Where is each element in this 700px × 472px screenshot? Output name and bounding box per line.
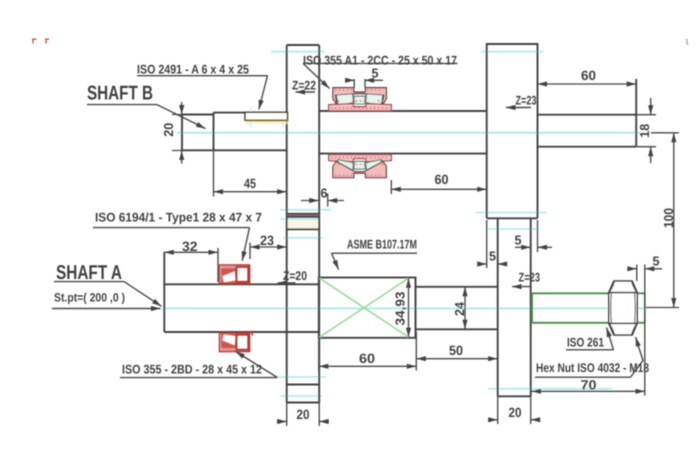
label ISO 355 A1 underline — [303, 62, 458, 64]
hex nut top chamfer arcs — [610, 281, 637, 292]
seal ISO 6194 upper top strip — [221, 266, 236, 269]
bearing 2CC lower cage spacer — [354, 161, 365, 169]
seal ISO 6194 upper inner cup — [237, 267, 249, 282]
svg-text:45: 45 — [244, 176, 256, 191]
dim 5 gear right edges lines — [515, 246, 531, 248]
dim 70 line — [532, 390, 646, 392]
dim 6 lines — [301, 200, 319, 202]
key centre mark left — [250, 108, 252, 127]
dim 60 shaft B line — [391, 188, 486, 190]
key ISO 2491 glow — [245, 120, 288, 124]
svg-text:SHAFT A: SHAFT A — [56, 262, 122, 284]
gear blank column left — [286, 45, 288, 403]
label ISO 261 underline — [566, 349, 614, 351]
thread stub past nut bottom — [637, 322, 645, 324]
svg-text:Z=22: Z=22 — [292, 79, 316, 93]
dim 5 bearing extensions — [354, 79, 365, 88]
svg-text:Z=20: Z=20 — [283, 269, 307, 283]
leader ISO 6194 to seal — [242, 228, 249, 261]
svg-text:60: 60 — [581, 68, 596, 83]
dim 5 gear left edges lines — [478, 263, 487, 265]
mesh overlap band — [288, 220, 319, 229]
svg-text:60: 60 — [435, 172, 449, 187]
seal ISO 355-2BD lower elastomer fill — [221, 334, 236, 349]
svg-text:24: 24 — [452, 301, 467, 316]
svg-text:5: 5 — [489, 249, 496, 264]
dim 23 line — [250, 246, 287, 248]
dim 50 line — [416, 358, 497, 360]
seal ISO 6194 upper lip wedge — [222, 271, 236, 283]
pitch line gear Z23 lower bottom — [488, 388, 612, 390]
pitch line gear Z23 lower top — [487, 228, 540, 230]
svg-text:ISO 355 - 2BD - 28 x 45 x 12: ISO 355 - 2BD - 28 x 45 x 12 — [122, 363, 262, 377]
seal ISO 355-2BD lower corner tab — [247, 332, 253, 336]
gear blank column right — [318, 45, 320, 403]
seal ISO 355-2BD lower body — [220, 333, 250, 352]
bearing 2CC lower inner ring — [329, 155, 392, 162]
dim 32 line — [164, 251, 218, 253]
bearing 2CC upper roller end bars — [336, 95, 384, 105]
dim 5 nut lines — [628, 268, 637, 270]
label ASME underline — [332, 252, 418, 254]
key centre mark right — [282, 108, 284, 127]
svg-text:100: 100 — [661, 208, 676, 228]
gear Z22 bottom edge lines — [287, 214, 320, 217]
svg-text:St.pt=( 200 ,0 ): St.pt=( 200 ,0 ) — [54, 291, 125, 305]
hex nut middle band — [609, 293, 637, 324]
wrench square section outline — [319, 278, 416, 338]
arrow Z=23 top — [506, 107, 531, 109]
dim 100 dim line — [673, 133, 675, 308]
pitch line gear Z23 right upper — [476, 212, 547, 214]
bearing 2CC upper outer ring — [333, 88, 386, 104]
bearing 2CC upper speckles — [331, 90, 389, 108]
arrow Z=23 bottom — [512, 286, 531, 288]
svg-text:5: 5 — [653, 254, 660, 269]
dim 24 line — [464, 287, 466, 330]
pitch line gear Z23 top — [481, 51, 544, 53]
leader ASME to wrench section — [332, 253, 339, 269]
seal ISO 355-2BD lower bottom strip — [221, 348, 236, 351]
bearing 2CC lower outer ring — [333, 161, 386, 177]
hex nut bottom section — [609, 323, 637, 335]
svg-text:Hex Nut ISO 4032 - M18: Hex Nut ISO 4032 - M18 — [536, 361, 649, 375]
leader ISO 355-2BD to bearing — [236, 351, 278, 377]
svg-text:20: 20 — [297, 407, 310, 422]
bearing 2CC upper roller left — [336, 94, 354, 106]
seal ISO 6194 upper body — [220, 265, 250, 284]
leader ISO 2491 to key — [259, 76, 268, 110]
dim 20 gear blank extensions — [287, 403, 320, 427]
svg-text:ISO 2491 - A 6 x 4 x 25: ISO 2491 - A 6 x 4 x 25 — [137, 63, 249, 77]
svg-text:23: 23 — [260, 233, 274, 248]
svg-text:32: 32 — [182, 239, 198, 254]
svg-text:ISO 355 A1 - 2CC - 25 x 50 x 1: ISO 355 A1 - 2CC - 25 x 50 x 17 — [303, 54, 457, 68]
dim 18 extension ticks — [637, 115, 656, 147]
dim 45 extension — [213, 151, 215, 197]
bearing 2CC lower roller end bars — [336, 161, 384, 171]
svg-text:ISO 261: ISO 261 — [567, 336, 604, 350]
artifact grey tick — [687, 39, 688, 45]
gear Z22 top edge — [287, 44, 320, 46]
dim 5 gear left extension — [486, 220, 488, 268]
leader ISO 355 A1 to bearing — [303, 63, 330, 88]
dim 5 nut extensions — [637, 265, 645, 396]
dim 5 bearing lines — [346, 79, 355, 81]
pitch line gear Z20 top — [283, 237, 323, 239]
svg-text:Z=23: Z=23 — [519, 271, 541, 285]
gear Z20 top edge — [287, 228, 320, 230]
hex nut bottom chamfer arcs — [610, 324, 637, 335]
dim 20 shaft B left extension ticks — [172, 115, 187, 151]
hex nut middle band face arcs — [611, 293, 635, 324]
label ISO 355-2BD underline — [120, 377, 278, 379]
dim 5 gear right extension — [537, 220, 539, 252]
shaft A step face — [415, 278, 417, 338]
svg-text:50: 50 — [449, 343, 463, 358]
bearing 2CC lower speckles — [331, 157, 389, 175]
pitch line gear Z22 top — [271, 51, 325, 53]
shaft B main section left of gear — [182, 113, 287, 151]
arrow Z=22 — [296, 91, 316, 93]
dim 60 wrench extensions — [319, 332, 417, 371]
dim 60 shaft B extension — [390, 180, 392, 194]
pitch line mesh upper — [280, 218, 321, 220]
mesh root line maroon — [287, 214, 320, 216]
seal ISO 6194 upper elastomer fill — [221, 268, 236, 283]
svg-text:20: 20 — [161, 123, 176, 137]
key seat line — [245, 119, 288, 121]
shaft B output section right — [538, 115, 637, 147]
seal ISO 355-2BD lower lip wedge — [222, 334, 236, 346]
dim 34,93 line — [408, 278, 410, 337]
dim 20 lower gear extensions — [498, 396, 531, 424]
shaft B main section right of gear — [319, 111, 487, 154]
gear Z23 lower bottom edge — [498, 395, 531, 397]
thread OD line top — [532, 293, 609, 323]
label SHAFT B underline — [87, 104, 157, 106]
thread OD line bottom — [532, 322, 609, 324]
leader SHAFT B to shaft — [157, 105, 206, 129]
leader SHAFT A to shaft — [124, 282, 162, 307]
svg-text:6: 6 — [321, 186, 328, 201]
svg-text:SHAFT B: SHAFT B — [87, 83, 153, 105]
bearing 2CC upper cage spacer — [354, 96, 365, 104]
svg-text:60: 60 — [359, 351, 375, 366]
svg-text:ISO 6194/1 - Type1 28 x 47 x 7: ISO 6194/1 - Type1 28 x 47 x 7 — [95, 211, 262, 225]
dim 60 output line — [538, 83, 637, 85]
gear Z23 lower right edge — [530, 218, 532, 396]
centerline shaft B — [177, 132, 640, 134]
dim 6 extension — [327, 194, 329, 207]
svg-text:70: 70 — [581, 378, 597, 393]
dim 60 wrench line — [319, 365, 417, 367]
bearing 2CC lower roller left — [336, 160, 354, 172]
pitch line gear Z22 bottom — [280, 209, 331, 211]
shaft B left end d20 — [182, 115, 214, 151]
seal ISO 355-2BD lower inner cup — [237, 335, 249, 350]
pitch line lower hub — [281, 395, 323, 397]
svg-text:18: 18 — [637, 124, 652, 138]
svg-text:5: 5 — [515, 233, 522, 248]
label ISO 6194 underline — [93, 227, 250, 229]
shaft B right end face — [635, 79, 637, 147]
shaft A threaded end face — [644, 293, 646, 324]
label Hex Nut underline — [535, 376, 631, 378]
dim 20 lower gear lines — [488, 419, 498, 421]
pitch line gear Z20 bottom — [277, 376, 326, 378]
bearing 2CC upper inner ring — [329, 104, 392, 111]
label ISO 2491 underline — [137, 75, 268, 77]
shaft A d28 section — [164, 284, 319, 332]
dim 20 gear blank lines — [277, 421, 287, 423]
shaft A d24 section — [416, 287, 498, 330]
gear Z23 lower left edge — [497, 218, 499, 396]
svg-text:20: 20 — [509, 405, 522, 420]
dim 18 dim line — [650, 98, 652, 115]
centerline shaft A — [162, 307, 647, 309]
key ISO 2491 body — [245, 112, 288, 120]
shaft A left face — [163, 252, 165, 332]
svg-text:34,93: 34,93 — [393, 292, 408, 326]
leader ISO 261 to thread — [607, 328, 614, 350]
artifact red tick 1 — [32, 39, 37, 44]
leader Hex Nut to nut — [631, 337, 644, 377]
wrench section X diagonal 1 — [320, 278, 409, 337]
leader St.pt start point — [52, 308, 161, 310]
svg-text:Z=23: Z=23 — [516, 94, 537, 108]
dim 20 shaft B left dim line — [181, 102, 183, 115]
dim 100 connectors — [646, 133, 679, 308]
dim 32 extension — [217, 248, 219, 282]
wrench section X diagonal 2 — [320, 278, 409, 337]
arrow Z=20 — [278, 282, 296, 284]
svg-text:5: 5 — [372, 66, 379, 81]
label SHAFT A underline — [54, 281, 124, 283]
gear Z23 upper outline — [487, 44, 538, 218]
hex nut ISO 4032 top section — [609, 281, 637, 293]
gear Z20 bottom edge — [287, 384, 320, 386]
svg-text:ASME B107.17M: ASME B107.17M — [347, 238, 417, 252]
gear Z20 hub bottom edge — [287, 402, 320, 404]
dim 45 line — [214, 191, 287, 193]
artifact red tick 2 — [45, 39, 49, 44]
thread stub past nut top — [637, 292, 645, 294]
shaft B shoulder — [213, 112, 215, 150]
bearing 2CC upper roller right — [366, 94, 384, 106]
bearing 2CC lower roller right — [366, 160, 384, 172]
dim 23 extension — [249, 243, 251, 260]
